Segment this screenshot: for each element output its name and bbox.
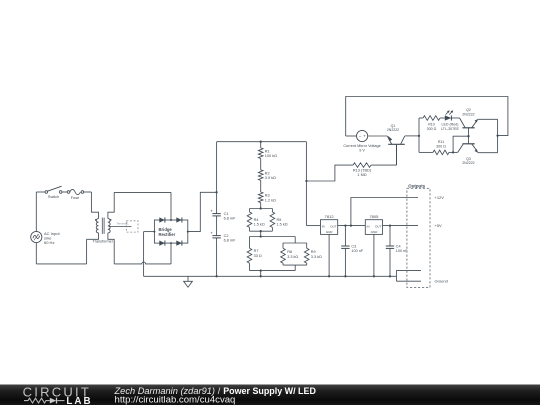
svg-text:Transformer: Transformer [93, 240, 114, 244]
svg-text:2N2222: 2N2222 [462, 161, 474, 165]
svg-text:9 V: 9 V [359, 149, 365, 153]
svg-text:6.8 mF: 6.8 mF [224, 216, 236, 220]
svg-text:C3: C3 [351, 245, 356, 249]
svg-text:LED (Red): LED (Red) [442, 123, 459, 127]
svg-text:C4: C4 [396, 245, 401, 249]
svg-text:R8: R8 [287, 250, 292, 254]
svg-text:R1: R1 [265, 150, 270, 154]
svg-text:300 Ω: 300 Ω [427, 127, 437, 131]
svg-text:+5V: +5V [435, 223, 443, 228]
svg-text:Fuse: Fuse [71, 196, 79, 200]
svg-text:Terminal1: Terminal1 [116, 221, 129, 225]
svg-text:1 MΩ: 1 MΩ [357, 173, 366, 177]
svg-text:R3: R3 [265, 194, 270, 198]
svg-text:R7: R7 [254, 249, 259, 253]
svg-text:+: + [363, 134, 366, 139]
svg-text:1.5 kΩ: 1.5 kΩ [277, 222, 288, 226]
svg-text:−: − [359, 134, 362, 139]
svg-text:2N2222: 2N2222 [462, 112, 474, 116]
svg-text:Current Mirror Voltage: Current Mirror Voltage [343, 144, 380, 148]
svg-text:3.3 kΩ: 3.3 kΩ [287, 255, 298, 259]
svg-text:1.2 kΩ: 1.2 kΩ [265, 198, 276, 202]
svg-text:60 Hz: 60 Hz [44, 240, 54, 245]
svg-text:R2: R2 [265, 172, 270, 176]
svg-text:LAB: LAB [66, 396, 90, 405]
svg-text:100 nF: 100 nF [396, 249, 409, 253]
svg-text:R4: R4 [254, 218, 259, 222]
svg-text:100 kΩ: 100 kΩ [265, 154, 277, 158]
svg-text:GND: GND [371, 230, 379, 234]
svg-text:Rectifier: Rectifier [159, 232, 176, 237]
svg-text:300 Ω: 300 Ω [436, 144, 446, 148]
svg-text:R13 (TBD): R13 (TBD) [353, 169, 372, 173]
svg-text:Switch: Switch [48, 195, 59, 199]
svg-text:C2: C2 [224, 234, 229, 238]
svg-text:2N2222: 2N2222 [387, 128, 399, 132]
svg-text:R5: R5 [277, 218, 282, 222]
svg-text:Ground: Ground [435, 279, 448, 284]
svg-text:R11: R11 [438, 140, 444, 144]
svg-text:Outputs: Outputs [408, 183, 425, 188]
svg-text:GND: GND [326, 230, 334, 234]
svg-text:7805: 7805 [369, 214, 379, 219]
svg-text:R10: R10 [428, 123, 435, 127]
svg-text:6.8 mF: 6.8 mF [224, 238, 236, 242]
svg-text:http://circuitlab.com/cu4cvaq: http://circuitlab.com/cu4cvaq [115, 395, 236, 405]
svg-text:3.9 kΩ: 3.9 kΩ [265, 176, 276, 180]
svg-text:C1: C1 [224, 212, 229, 216]
svg-text:+: + [210, 208, 213, 213]
svg-text:+: + [210, 230, 213, 235]
svg-text:Power Supply W/ LED: Power Supply W/ LED [223, 386, 316, 396]
svg-text:3.3 kΩ: 3.3 kΩ [311, 255, 322, 259]
svg-text:R9: R9 [311, 250, 316, 254]
svg-text:+12V: +12V [435, 195, 445, 200]
svg-text:1.5 kΩ: 1.5 kΩ [254, 222, 265, 226]
svg-text:33 Ω: 33 Ω [254, 254, 262, 258]
svg-text:LTL-307EE: LTL-307EE [441, 127, 460, 131]
svg-text:100 nF: 100 nF [351, 249, 364, 253]
svg-text:7812: 7812 [325, 214, 335, 219]
